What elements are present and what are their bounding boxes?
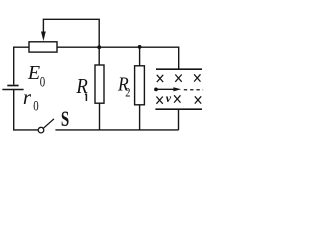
svg-text:2: 2 <box>125 86 130 100</box>
svg-text:0: 0 <box>40 74 45 90</box>
svg-text:S: S <box>61 107 69 132</box>
svg-text:v: v <box>166 91 172 105</box>
svg-text:E: E <box>27 62 40 84</box>
svg-text:r: r <box>23 85 32 109</box>
svg-text:0: 0 <box>33 98 38 114</box>
